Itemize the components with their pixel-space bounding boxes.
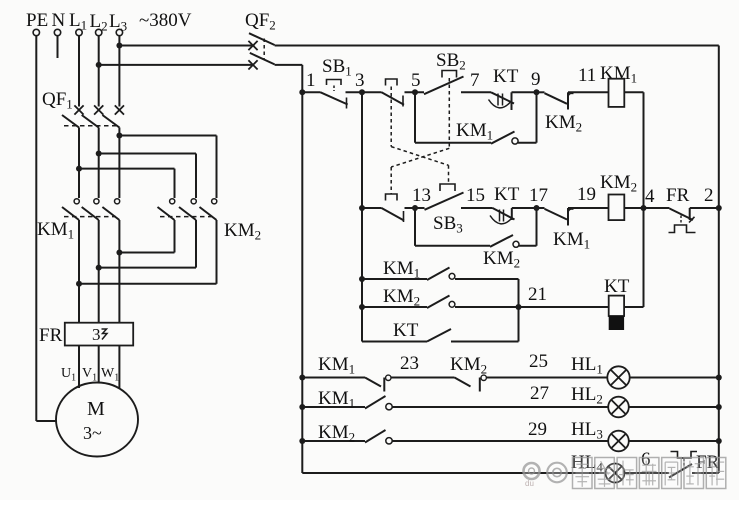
label V1 — [82, 366, 97, 384]
wire node1 to SB1 — [302, 91, 320, 93]
contact KM1 NC (rung3) — [318, 354, 391, 392]
wire KM1 pole2 to FR — [98, 220, 100, 323]
node 17 — [529, 185, 548, 211]
node KM2 pole3 join L1 — [76, 281, 82, 287]
wire rung4 c — [629, 406, 719, 408]
label KM1 main — [37, 219, 74, 242]
svg-text:29: 29 — [528, 419, 547, 440]
contact KT NO (branchC) — [393, 320, 451, 342]
wire rung5 a — [302, 440, 365, 442]
node 2 — [704, 185, 722, 211]
contact KM2 NC (rung1) — [537, 92, 583, 134]
svg-text:19: 19 — [577, 184, 596, 205]
wire right rail — [718, 46, 720, 474]
wire SB2 to KT contact — [461, 91, 491, 93]
coil KM2 — [600, 172, 637, 220]
label 29 — [528, 419, 547, 440]
wire SB2NC to node13 — [405, 207, 425, 209]
wire branchA — [362, 278, 427, 280]
svg-text:KT: KT — [604, 276, 630, 297]
svg-text:5: 5 — [411, 70, 421, 91]
svg-text:M: M — [87, 398, 105, 420]
node KM2 pole1 join L3 — [116, 250, 122, 256]
thermal relay FR box — [65, 323, 133, 346]
wire KM2 pole1 out — [119, 220, 174, 253]
wire rung6 b — [625, 472, 670, 474]
wire rung5 c — [629, 440, 719, 442]
wire branchC right — [451, 341, 519, 343]
wire bypass1 up to node9 — [518, 92, 537, 142]
contact KM1 NC (rung2) — [537, 208, 591, 252]
coil KM1 — [600, 63, 637, 107]
wire branchA right — [455, 279, 519, 342]
wire rung2 start — [362, 207, 382, 209]
wire branchB — [362, 306, 427, 308]
wire rung6 a — [302, 472, 605, 474]
wire PE to motor — [36, 420, 57, 422]
wire rung3 c — [486, 377, 607, 379]
wire L1 QF1 to KM1 — [78, 128, 80, 199]
motor M — [56, 383, 138, 457]
wire rung6 c — [692, 472, 719, 474]
watermark — [524, 458, 726, 489]
pushbutton SB3 (NO) — [425, 184, 464, 236]
label KM2 main — [224, 220, 261, 243]
lamp HL2 — [571, 384, 629, 417]
wire L3 down to QF1 — [118, 36, 120, 107]
svg-text:KT: KT — [494, 184, 520, 205]
svg-text:25: 25 — [529, 351, 548, 372]
svg-text:PE: PE — [26, 10, 48, 31]
wire FR to motor V — [98, 346, 100, 384]
wire rung3 a — [302, 377, 365, 379]
svg-text:27: 27 — [530, 383, 549, 404]
node L1 to KM2 — [76, 166, 82, 172]
QF2 mechanical link — [263, 39, 265, 59]
svg-text:21: 21 — [528, 284, 547, 305]
label 25 — [529, 351, 548, 372]
wire L3 QF1 to KM1 — [118, 128, 120, 199]
label ~380V — [139, 10, 192, 31]
node rung4 — [299, 404, 305, 410]
breaker QF2 upper pole — [248, 33, 274, 50]
svg-text:KT: KT — [493, 66, 519, 87]
node KM2 pole2 join L2 — [96, 265, 102, 271]
contact KM2 NO self-hold — [483, 235, 520, 271]
label N — [52, 10, 66, 31]
svg-text:N: N — [52, 10, 66, 31]
wire rung4 b — [392, 406, 608, 408]
SB2 link dashed — [391, 78, 449, 194]
wire QF2 lower out — [275, 64, 303, 66]
node rung5 — [299, 438, 305, 444]
wire node5 down — [414, 92, 416, 142]
label FR box — [39, 325, 63, 346]
wire L1 down to QF1 — [78, 36, 80, 107]
label 6 — [641, 449, 651, 470]
lamp HL3 — [571, 419, 629, 451]
label W1 — [101, 366, 119, 384]
node L3 to KM2 — [116, 133, 122, 139]
node 21 — [516, 284, 548, 310]
label 27 — [530, 383, 549, 404]
wire node13 down — [414, 208, 416, 246]
wire SB1 to node5 — [346, 91, 382, 93]
wire node21 to KT coil — [519, 306, 609, 308]
wire QF2 upper out (top bus) — [275, 45, 719, 47]
label 7 — [470, 70, 480, 91]
node 3 — [355, 70, 365, 95]
wire KT2 to node17 — [512, 207, 537, 209]
contact KM1 NO (rung4) — [318, 388, 392, 411]
lamp HL4 — [571, 452, 625, 483]
thermal contact FR (rung2) — [666, 185, 696, 233]
pushbutton SB3 NC contact — [382, 79, 405, 107]
wire KM2 pole3 out — [79, 220, 217, 284]
contact KM2 NO (branchB) — [383, 286, 455, 309]
wire KT to node9 — [512, 91, 537, 93]
node branchB — [359, 304, 365, 310]
wire node3 down — [361, 92, 363, 341]
wire FR to motor U — [78, 346, 80, 389]
svg-text:FR: FR — [666, 185, 690, 206]
wire KM2 pole2 out — [99, 220, 196, 268]
contact KM2 NO (rung5) — [318, 422, 392, 445]
wire FR to motor W — [118, 346, 120, 389]
wire L2 down to QF1 — [98, 36, 100, 107]
KM2 main link — [160, 216, 213, 218]
svg-text:KT: KT — [393, 320, 419, 341]
wire KT coil right — [624, 306, 643, 308]
label 11 — [578, 65, 596, 86]
svg-text:3~: 3~ — [83, 423, 102, 443]
label U1 — [61, 366, 76, 384]
coil KT — [604, 276, 630, 330]
wire SB3 to KT2 — [461, 207, 493, 209]
wire rung5 b — [392, 440, 608, 442]
svg-text:3: 3 — [92, 325, 101, 344]
pushbutton SB2 NC contact — [382, 194, 405, 222]
label QF2 — [245, 10, 276, 33]
node L3 tap — [116, 43, 122, 49]
time relay KT contact (rung2) — [490, 184, 520, 224]
label 23 — [400, 353, 419, 374]
lamp HL1 — [571, 354, 630, 389]
wire branchB right — [455, 306, 519, 308]
SB3 link dashed — [391, 87, 448, 184]
svg-text:23: 23 — [400, 353, 419, 374]
label L1 — [69, 10, 87, 33]
thermal contact FR (rung6) — [669, 452, 720, 478]
QF1 mechanical link — [64, 125, 116, 127]
svg-text:7: 7 — [470, 70, 480, 91]
svg-text:15: 15 — [466, 185, 485, 206]
wire KM1 pole3 to FR — [118, 220, 120, 323]
node rung4 right — [716, 404, 722, 410]
label L2 — [90, 11, 108, 34]
wire coil KM1 to node4 rail — [624, 92, 643, 307]
wire bypass1 bottom — [415, 142, 491, 144]
label 19 — [577, 184, 596, 205]
node rung3 — [299, 375, 305, 381]
svg-text:13: 13 — [412, 185, 431, 206]
node 1 — [299, 70, 315, 95]
wire KM1 pole1 to FR — [78, 220, 80, 323]
node 13 — [412, 185, 431, 211]
svg-text:9: 9 — [531, 69, 541, 90]
wire L2 tap to QF2 lower — [99, 64, 254, 66]
terminal L1 — [76, 29, 82, 35]
wire SB3NC to SB2 — [405, 91, 425, 93]
contact KM1 NO (branchA) — [383, 258, 455, 281]
label 15 — [466, 185, 485, 206]
svg-text:11: 11 — [578, 65, 596, 86]
node 4 — [641, 186, 656, 211]
node branchA — [359, 276, 365, 282]
node 9 — [531, 69, 541, 95]
node 5 — [411, 70, 421, 95]
contact KM2 NC (rung3) — [450, 354, 487, 392]
node L2 to KM2 — [96, 151, 102, 157]
KM1 main link — [64, 216, 116, 218]
svg-text:FR: FR — [39, 325, 63, 346]
pushbutton SB2 (NO) — [424, 50, 466, 94]
label PE — [26, 10, 48, 31]
node rung3 right — [716, 375, 722, 381]
wire rung4 a — [302, 406, 365, 408]
svg-text:3: 3 — [355, 70, 365, 91]
wire L2 to KM2 pole2 — [99, 154, 196, 199]
contactor KM1 main contacts — [62, 199, 120, 220]
wire L2 QF1 to KM1 — [98, 128, 100, 199]
wire coil KM2 to node4 — [624, 207, 669, 209]
time relay KT contact (rung1) — [489, 66, 519, 110]
node rung2 start — [359, 205, 365, 211]
node rung5 right — [716, 438, 722, 444]
svg-text:du: du — [525, 479, 534, 488]
wire N stub — [57, 36, 59, 58]
svg-text:4: 4 — [645, 186, 655, 207]
wire L3 to KM2 pole3 — [119, 136, 216, 199]
wire rung3 d — [630, 377, 719, 379]
label L3 — [109, 11, 127, 34]
contact KM1 NO self-hold — [456, 120, 518, 144]
wire left rail — [301, 65, 303, 473]
wire bypass2 bottom — [415, 245, 490, 247]
wire FR to node2 — [690, 207, 719, 209]
wire L1 to KM2 pole1 — [79, 169, 175, 198]
wire L3 tap to QF2 upper — [119, 45, 254, 47]
wire bypass2 up to node17 — [519, 208, 537, 246]
terminal L2 — [96, 29, 102, 35]
terminal PE — [33, 29, 39, 35]
node L2 tap — [96, 62, 102, 68]
breaker QF2 lower pole — [248, 53, 274, 70]
wire KM2NC to coil KM1 — [568, 91, 609, 93]
label QF1 — [42, 89, 73, 112]
svg-text:17: 17 — [529, 185, 548, 206]
svg-text:~380V: ~380V — [139, 10, 192, 31]
contactor KM2 main contacts — [158, 199, 217, 220]
wire PE down — [35, 36, 37, 421]
breaker QF1 poles — [62, 105, 124, 127]
terminal N — [54, 29, 60, 35]
terminal L3 — [116, 29, 122, 35]
wire rung3 b — [391, 377, 455, 379]
pushbutton SB1 (NC) — [321, 56, 352, 109]
wire branchC start — [362, 341, 427, 343]
svg-text:2: 2 — [704, 185, 714, 206]
wire KM1NC to coil KM2 — [568, 207, 609, 209]
svg-text:1: 1 — [306, 70, 316, 91]
